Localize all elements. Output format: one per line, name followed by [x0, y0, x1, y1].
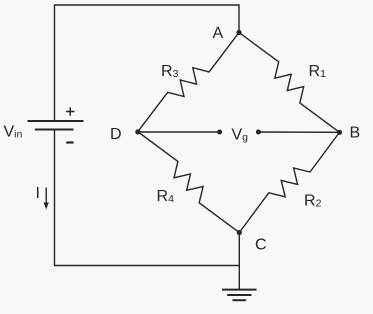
current arrow I [44, 188, 49, 210]
resistor R2 [239, 132, 339, 232]
Vg right terminal dot [256, 130, 261, 135]
svg-text:D: D [110, 126, 122, 143]
ground [222, 290, 257, 301]
Vg left terminal dot [217, 130, 222, 135]
battery V_in plates [28, 121, 84, 130]
svg-text:B: B [350, 125, 361, 142]
wire top from battery to node A [55, 5, 240, 121]
wire Vg right terminal to B [258, 131, 339, 133]
node C [237, 230, 242, 235]
battery plus sign [66, 107, 75, 115]
svg-text:A: A [213, 25, 224, 42]
node A [236, 30, 241, 35]
resistor R1 [239, 33, 340, 133]
svg-text:I: I [36, 185, 40, 202]
node B [337, 130, 342, 135]
wire C to ground [238, 233, 240, 290]
battery minus sign [66, 141, 73, 143]
svg-text:C: C [255, 237, 267, 254]
wire D to Vg left terminal [138, 131, 220, 133]
resistor R4 [138, 132, 240, 233]
resistor R3 [138, 33, 239, 132]
wire left bottom from battery to bottom rail [55, 130, 240, 266]
node D [135, 129, 140, 134]
